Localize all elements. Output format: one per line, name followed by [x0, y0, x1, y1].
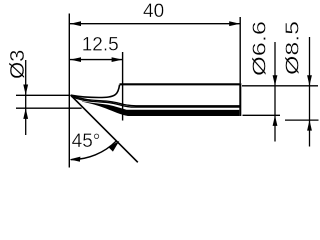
phi8.5 dim line — [309, 37, 311, 147]
angle arc — [71, 141, 117, 160]
extension line top right — [242, 85, 318, 87]
dim line 12.5 — [70, 59, 122, 61]
extension line bottom right 6.6 — [243, 114, 281, 116]
svg-text:45°: 45° — [72, 131, 101, 152]
phi3 upper arrowhead — [23, 85, 28, 96]
arrowhead 12.5 left — [70, 57, 81, 62]
arrowhead 40 right — [229, 21, 240, 26]
tip bottom contour lower line — [71, 96, 239, 107]
svg-text:12.5: 12.5 — [82, 34, 119, 55]
body top edge — [120, 83, 242, 85]
bevel diagonal 45 — [71, 95, 138, 162]
tip bottom contour upper line and body thin line — [71, 95, 240, 106]
svg-text:Ø6.6: Ø6.6 — [249, 21, 270, 76]
arrowhead 40 left — [70, 21, 81, 26]
svg-text:Ø8.5: Ø8.5 — [282, 21, 303, 75]
extension line phi3 top — [16, 94, 70, 96]
arrowhead 12.5 right — [112, 57, 123, 62]
extension line bottom right 8.5 — [285, 119, 319, 121]
phi8.5 lower arrowhead — [307, 120, 312, 131]
phi6.6 upper arrowhead — [273, 75, 278, 86]
extension line right (40) — [239, 17, 241, 83]
extension line phi3 bottom — [16, 107, 82, 109]
body right edge — [239, 83, 241, 116]
phi6.6 lower arrowhead — [273, 115, 278, 126]
phi3 arrow shaft — [25, 60, 27, 135]
tip top contour — [71, 85, 120, 98]
phi8.5 upper arrowhead — [307, 75, 312, 86]
angle arc left arrowhead — [70, 157, 81, 162]
phi3 lower arrowhead — [23, 108, 28, 119]
svg-text:40: 40 — [143, 1, 164, 22]
dim line 40 — [70, 23, 240, 25]
svg-text:Ø3: Ø3 — [6, 50, 29, 80]
extension line left — [68, 14, 70, 168]
extension line mid (12.5) — [122, 52, 124, 121]
phi6.6 dim line — [274, 42, 276, 142]
coating wedge and band — [82, 101, 239, 116]
angle arc right arrowhead — [109, 141, 120, 152]
